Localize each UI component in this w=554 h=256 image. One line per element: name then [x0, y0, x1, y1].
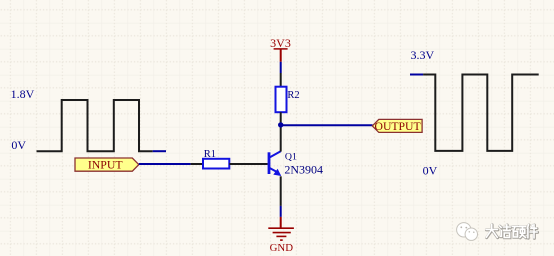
transistor Q1 2N3904	[269, 151, 281, 174]
output wire node to OUTPUT port	[281, 124, 373, 126]
emitter wire (blue part)	[280, 206, 282, 217]
svg-text:3V3: 3V3	[270, 36, 291, 50]
wire INPUT to R1 (blue part)	[139, 163, 191, 165]
wire INPUT to R1 (black part)	[191, 163, 203, 165]
watermark logo (two bubbles)	[457, 223, 478, 241]
wire 3V3 to R2 (black part)	[280, 73, 282, 87]
大	[486, 224, 498, 237]
svg-text:R1: R1	[204, 149, 216, 160]
svg-text:Q1: Q1	[285, 151, 297, 162]
svg-text:3.3V: 3.3V	[411, 48, 435, 62]
emitter wire (red part to gnd)	[280, 217, 282, 228]
emitter wire (black)	[280, 176, 282, 206]
port OUTPUT	[372, 119, 422, 132]
wire 3V3 to R2 (blue part)	[280, 62, 282, 73]
power port 3V3 bar	[274, 48, 288, 50]
left waveform (1.8V square wave)	[37, 100, 153, 151]
emitter arrow head	[273, 169, 281, 176]
right waveform (3.3V inverted square wave)	[423, 75, 539, 151]
junction node	[278, 122, 283, 127]
ground GND	[268, 228, 294, 240]
power port 3V3 pin	[280, 49, 282, 62]
port INPUT	[75, 158, 139, 171]
svg-text:GND: GND	[270, 242, 294, 254]
话	[500, 225, 511, 238]
wire R1 to Q1 base	[229, 163, 267, 165]
件	[527, 225, 537, 238]
svg-text:1.8V: 1.8V	[11, 87, 35, 101]
wire R2 to node (black)	[280, 112, 282, 125]
svg-text:2N3904: 2N3904	[284, 162, 323, 176]
collector wire (black) node to Q1	[280, 125, 282, 152]
svg-text:0V: 0V	[423, 163, 438, 177]
wire stub after left waveform	[153, 150, 166, 152]
svg-text:INPUT: INPUT	[88, 158, 124, 172]
right waveform blue stub	[410, 74, 423, 76]
resistor R1	[203, 159, 229, 169]
svg-text:0V: 0V	[11, 138, 26, 152]
svg-text:OUTPUT: OUTPUT	[375, 120, 421, 133]
resistor R2	[276, 87, 287, 113]
svg-text:R2: R2	[287, 90, 299, 101]
硬	[512, 226, 526, 237]
watermark text 大话硬件 (drawn strokes)	[486, 224, 537, 238]
